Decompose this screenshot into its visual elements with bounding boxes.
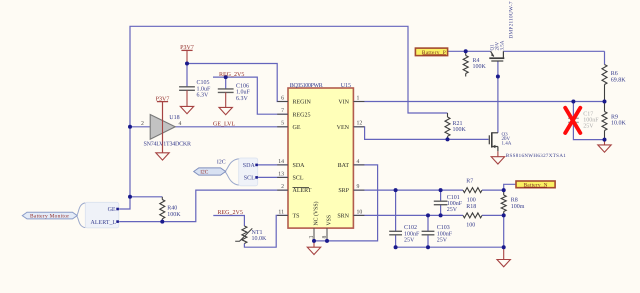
svg-text:100K: 100K (453, 127, 467, 133)
svg-text:10.0K: 10.0K (252, 236, 268, 242)
svg-text:14: 14 (278, 159, 284, 165)
svg-text:4: 4 (179, 121, 182, 127)
svg-text:2: 2 (141, 121, 144, 127)
svg-text:VEN: VEN (337, 125, 350, 131)
svg-text:2: 2 (281, 184, 284, 190)
svg-text:C103: C103 (437, 225, 450, 231)
svg-text:C17: C17 (583, 112, 593, 118)
svg-text:4: 4 (357, 159, 360, 165)
svg-text:C102: C102 (404, 225, 417, 231)
svg-text:11: 11 (278, 209, 284, 215)
svg-text:U15: U15 (341, 83, 351, 89)
svg-text:10.0K: 10.0K (611, 121, 627, 127)
svg-text:100K: 100K (473, 64, 487, 70)
svg-text:1: 1 (357, 95, 360, 101)
svg-text:R40: R40 (167, 206, 177, 212)
svg-text:R6: R6 (611, 71, 618, 77)
svg-text:100: 100 (466, 222, 475, 228)
svg-text:REG_2V5: REG_2V5 (218, 210, 243, 216)
svg-text:I2C: I2C (217, 159, 226, 165)
svg-text:C106: C106 (236, 83, 249, 89)
svg-text:20V: 20V (494, 42, 500, 51)
svg-text:3: 3 (309, 236, 315, 239)
svg-text:100m: 100m (511, 204, 525, 210)
svg-text:25V: 25V (583, 124, 594, 130)
svg-text:25V: 25V (447, 207, 458, 213)
svg-text:12: 12 (357, 121, 363, 127)
svg-text:TS: TS (293, 214, 300, 220)
svg-text:100nF: 100nF (404, 231, 420, 237)
svg-text:SDA: SDA (293, 163, 306, 169)
svg-text:GE_LVL: GE_LVL (213, 122, 235, 128)
svg-text:C105: C105 (197, 80, 210, 86)
svg-text:ALERT: ALERT (293, 188, 312, 194)
svg-text:NT1: NT1 (252, 230, 263, 236)
svg-text:SRN: SRN (337, 214, 349, 220)
svg-text:I2C: I2C (200, 170, 208, 176)
svg-text:5: 5 (281, 121, 284, 127)
svg-text:1.0uF: 1.0uF (197, 86, 212, 92)
svg-text:GE: GE (108, 207, 116, 213)
svg-text:R9: R9 (611, 114, 618, 120)
svg-text:VIN: VIN (338, 100, 349, 106)
svg-text:3.5A: 3.5A (500, 40, 506, 50)
svg-text:C101: C101 (447, 195, 460, 201)
svg-text:100K: 100K (167, 212, 181, 218)
svg-text:R8: R8 (511, 198, 518, 204)
svg-text:BSS816NWH6327XTSA1: BSS816NWH6327XTSA1 (506, 153, 567, 159)
svg-text:BAT: BAT (338, 163, 350, 169)
svg-text:25V: 25V (404, 238, 415, 244)
svg-text:1.0uF: 1.0uF (236, 90, 251, 96)
svg-text:REG25: REG25 (293, 112, 311, 118)
svg-text:100nF: 100nF (437, 231, 453, 237)
svg-text:69.8K: 69.8K (611, 77, 627, 83)
svg-text:P3V7: P3V7 (156, 96, 170, 102)
svg-text:R18: R18 (466, 204, 476, 210)
svg-text:ALERT_L: ALERT_L (91, 220, 117, 226)
svg-text:8: 8 (322, 236, 328, 239)
svg-text:R4: R4 (473, 58, 480, 64)
svg-text:SN74LV1T34DCKR: SN74LV1T34DCKR (144, 141, 192, 147)
svg-text:9: 9 (357, 184, 360, 190)
svg-text:SRP: SRP (338, 188, 349, 194)
svg-text:25V: 25V (437, 238, 448, 244)
svg-text:DMP2110UW-7: DMP2110UW-7 (508, 1, 514, 38)
svg-text:P3V7: P3V7 (180, 45, 194, 51)
svg-text:BQ35100PWR: BQ35100PWR (290, 83, 323, 89)
svg-text:GE: GE (293, 125, 301, 131)
svg-text:REGIN: REGIN (293, 100, 312, 106)
svg-text:1.4A: 1.4A (502, 140, 512, 146)
svg-text:VSS: VSS (327, 215, 333, 226)
svg-text:6.3V: 6.3V (197, 93, 210, 99)
svg-text:R7: R7 (466, 178, 473, 184)
svg-text:REG_2V5: REG_2V5 (219, 72, 244, 78)
svg-text:SCL: SCL (244, 176, 255, 182)
svg-text:10: 10 (357, 209, 363, 215)
svg-text:7: 7 (281, 108, 284, 114)
svg-text:NC (VSS): NC (VSS) (313, 201, 320, 225)
svg-text:13: 13 (278, 171, 284, 177)
svg-text:R21: R21 (453, 121, 463, 127)
svg-text:SCL: SCL (293, 176, 304, 182)
svg-text:100: 100 (467, 197, 476, 203)
svg-text:6: 6 (281, 95, 284, 101)
svg-text:Battery Monitor: Battery Monitor (30, 214, 69, 220)
svg-text:SDA: SDA (243, 163, 256, 169)
svg-text:6.3V: 6.3V (236, 96, 249, 102)
